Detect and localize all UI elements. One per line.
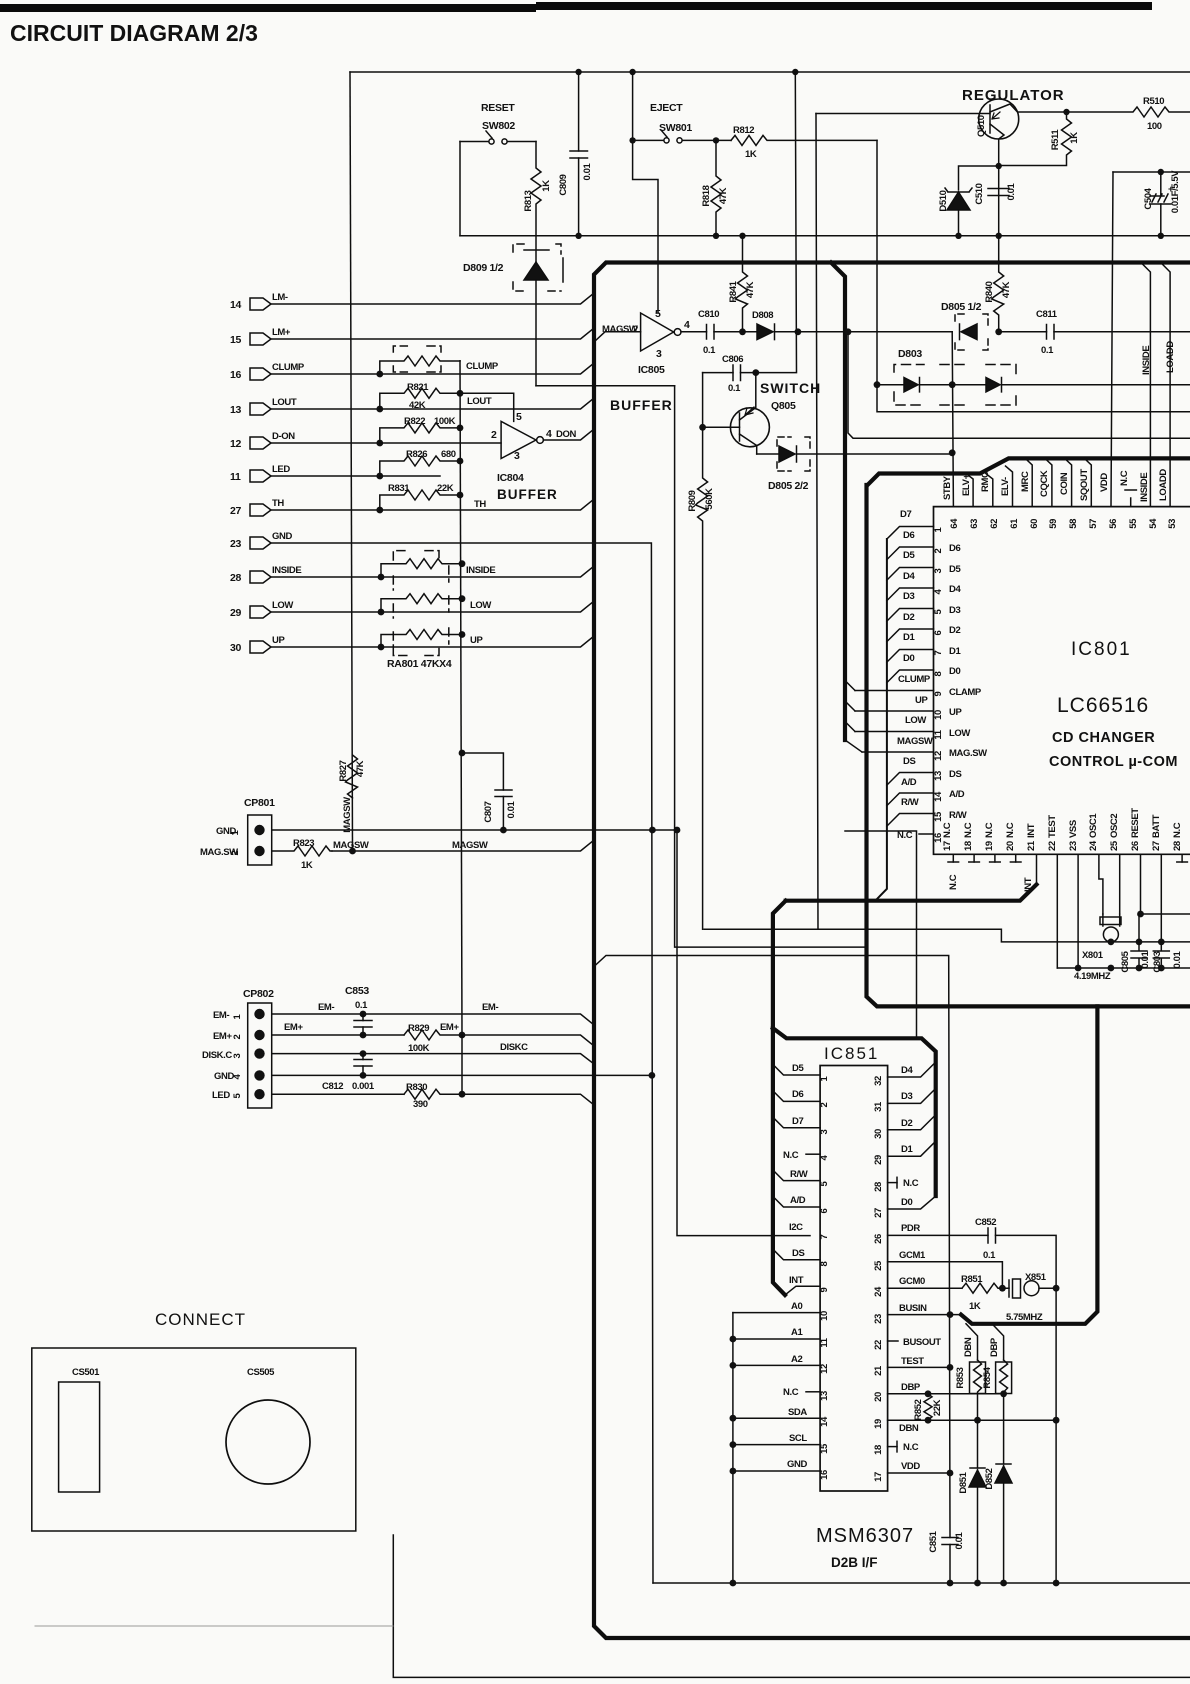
wire regulator emitter down <box>998 166 1000 236</box>
op-amp U IC801 box <box>934 507 1190 855</box>
svg-text:VDD: VDD <box>1099 473 1110 492</box>
svg-text:14: 14 <box>819 1416 830 1427</box>
node D803 left <box>874 381 881 388</box>
svg-text:47K: 47K <box>1001 281 1012 298</box>
resistor R841 47K <box>736 236 748 332</box>
bus branch to IC801 left pins thick <box>831 263 845 741</box>
svg-text:R812: R812 <box>733 125 754 136</box>
svg-text:560K: 560K <box>704 488 715 510</box>
svg-text:SWITCH: SWITCH <box>760 380 821 396</box>
svg-text:Q805: Q805 <box>771 400 796 412</box>
node BUSIN/rail950 <box>947 1311 954 1318</box>
svg-text:13: 13 <box>933 771 944 781</box>
node top rail / C809 <box>575 69 581 75</box>
pin 25 GCM1 <box>888 1262 1003 1288</box>
resistor R852 22K <box>924 1394 932 1420</box>
svg-text:N.C: N.C <box>783 1150 799 1161</box>
svg-text:LOW: LOW <box>905 715 926 726</box>
wire I2C gnd drop x=677 <box>677 830 810 1236</box>
wire vdd top right y=172 <box>1113 171 1190 173</box>
svg-text:4: 4 <box>933 588 944 594</box>
svg-text:5: 5 <box>655 308 661 320</box>
capacitor C805 0.01 <box>1131 914 1147 968</box>
svg-text:GND: GND <box>272 531 292 542</box>
svg-text:C510: C510 <box>974 183 985 204</box>
node gnd rail PDR column <box>1053 1580 1060 1587</box>
svg-text:0.1: 0.1 <box>355 1000 368 1011</box>
resistor R823 1K <box>272 846 332 856</box>
node C806/collector <box>752 369 759 376</box>
wire rail to C807 <box>462 753 503 790</box>
node CP802 GND/rail <box>649 1072 656 1079</box>
svg-text:62: 62 <box>989 519 1000 529</box>
svg-text:61: 61 <box>1009 518 1020 529</box>
svg-text:C809: C809 <box>558 174 569 195</box>
wire busA exit to x=950 rail <box>594 956 950 1584</box>
svg-text:3: 3 <box>819 1129 830 1134</box>
bus IC801 left vertical thick <box>867 485 1190 1006</box>
wire vdd column x=1112 <box>1111 172 1113 507</box>
pin 12 A2 <box>733 1364 820 1366</box>
svg-text:55: 55 <box>1128 518 1139 529</box>
svg-text:INSIDE: INSIDE <box>272 565 301 576</box>
svg-text:R/W: R/W <box>949 810 967 821</box>
node R831/rail <box>457 492 464 499</box>
node D-ON/R822 <box>376 440 383 447</box>
svg-text:DBN: DBN <box>899 1423 919 1434</box>
pin 16 GND <box>733 1470 820 1472</box>
svg-text:D2: D2 <box>949 625 960 636</box>
node GND/C807 <box>500 827 507 834</box>
node eject switch left <box>629 137 635 143</box>
node C805/968 <box>1136 965 1143 972</box>
svg-text:0.1: 0.1 <box>703 345 716 356</box>
svg-text:C811: C811 <box>1036 309 1058 320</box>
node top rail / regulator drop <box>792 69 798 75</box>
svg-text:2: 2 <box>232 1034 243 1039</box>
svg-text:24: 24 <box>873 1286 884 1297</box>
svg-text:31: 31 <box>873 1101 884 1112</box>
node C805 941 <box>1136 939 1143 946</box>
svg-text:TH: TH <box>474 499 486 510</box>
svg-text:CD CHANGER: CD CHANGER <box>1052 730 1155 746</box>
bottom pin 19 N.C <box>994 854 996 862</box>
svg-text:INT: INT <box>789 1275 804 1286</box>
svg-text:RMC: RMC <box>980 471 991 492</box>
node DBN/R852 <box>925 1417 932 1424</box>
svg-text:LOUT: LOUT <box>272 397 297 408</box>
node A1 <box>730 1336 737 1343</box>
svg-text:MAGSW: MAGSW <box>897 736 933 747</box>
svg-text:EM+: EM+ <box>213 1031 232 1042</box>
svg-text:59: 59 <box>1048 519 1059 529</box>
svg-text:17: 17 <box>942 841 953 851</box>
svg-text:8: 8 <box>819 1261 830 1266</box>
node SDA <box>730 1415 737 1422</box>
svg-text:390: 390 <box>413 1099 428 1110</box>
svg-text:C806: C806 <box>722 354 743 365</box>
node EM+/rail <box>459 1032 466 1039</box>
resistor R818 47K <box>711 140 721 235</box>
svg-text:47K: 47K <box>745 281 756 298</box>
svg-text:N.C: N.C <box>783 1387 799 1398</box>
svg-text:2: 2 <box>933 548 944 553</box>
wire eject to D803 x=877 <box>876 140 878 384</box>
svg-text:22K: 22K <box>932 1399 943 1416</box>
node X851/PDR column <box>1053 1285 1060 1292</box>
svg-text:1: 1 <box>232 1013 243 1019</box>
pin 32 D4 <box>888 1062 936 1077</box>
diode D852 <box>1003 1394 1005 1464</box>
svg-text:D7: D7 <box>900 509 911 520</box>
svg-text:D808: D808 <box>752 310 773 321</box>
diode D851 <box>977 1420 979 1468</box>
wire lower gnd rail y=1583 <box>653 1582 1190 1584</box>
svg-text:DBP: DBP <box>901 1382 921 1393</box>
wire supply rail y=235.8 <box>460 235 1190 237</box>
svg-text:47K: 47K <box>718 187 729 204</box>
resistor RA801-c <box>381 630 462 648</box>
wire test gnd rail y=968 <box>1057 967 1190 969</box>
rail A0-GND x=732.9 <box>732 1313 734 1583</box>
svg-text:6: 6 <box>819 1208 830 1213</box>
node I2C drop <box>674 827 681 834</box>
svg-text:BUFFER: BUFFER <box>610 397 673 413</box>
svg-text:D0: D0 <box>901 1197 912 1208</box>
svg-text:R818: R818 <box>701 185 712 206</box>
svg-text:0.01: 0.01 <box>506 800 517 818</box>
wire regulator base drop x=817 <box>816 114 818 930</box>
resistor R510 100 <box>1067 107 1190 117</box>
svg-text:CIRCUIT DIAGRAM 2/3: CIRCUIT DIAGRAM 2/3 <box>10 20 258 46</box>
svg-text:R853: R853 <box>955 1367 966 1388</box>
svg-text:0.01: 0.01 <box>954 1531 965 1549</box>
svg-text:VSS: VSS <box>1068 820 1079 838</box>
svg-text:UP: UP <box>272 635 285 646</box>
svg-text:C807: C807 <box>483 801 494 822</box>
svg-text:27: 27 <box>873 1208 884 1218</box>
bottom pin 26 RESET <box>1140 854 1142 914</box>
bus exit CLUMP <box>845 681 855 691</box>
svg-text:18: 18 <box>963 841 974 851</box>
node rail/R841 <box>739 233 745 239</box>
svg-text:IC805: IC805 <box>638 364 665 376</box>
node RA801b/rail <box>459 595 466 602</box>
node x801 bottom <box>1108 939 1115 946</box>
svg-text:3: 3 <box>514 450 520 462</box>
page top rule bar <box>0 4 536 12</box>
svg-text:D2: D2 <box>903 612 914 623</box>
svg-text:5: 5 <box>232 1092 243 1098</box>
svg-text:RA801 47KX4: RA801 47KX4 <box>387 658 452 670</box>
wire LED cp802 <box>272 1093 404 1095</box>
svg-text:3: 3 <box>656 348 662 360</box>
bus data D0-D7 x=886.9 <box>876 539 887 900</box>
svg-text:LED: LED <box>212 1090 230 1101</box>
capacitor C809 0.01 <box>578 72 580 151</box>
svg-text:N.C: N.C <box>903 1178 919 1189</box>
resistor R840 47K <box>992 236 1004 332</box>
svg-text:30: 30 <box>873 1129 884 1139</box>
svg-text:0.1: 0.1 <box>1041 345 1054 356</box>
label BUFFER box <box>675 386 867 947</box>
svg-text:MSM6307: MSM6307 <box>816 1525 914 1547</box>
svg-text:58: 58 <box>1068 519 1079 529</box>
node DBP/R852 <box>925 1390 932 1397</box>
pin 29 D1 <box>888 1141 936 1156</box>
svg-text:A0: A0 <box>791 1301 802 1312</box>
svg-text:LOW: LOW <box>272 600 293 611</box>
svg-text:D7: D7 <box>792 1116 803 1127</box>
bottom pin 24 OSC1 <box>1099 854 1103 914</box>
svg-text:21: 21 <box>873 1365 884 1376</box>
svg-text:23: 23 <box>1068 841 1079 851</box>
svg-text:C812: C812 <box>322 1081 343 1092</box>
svg-text:0.1: 0.1 <box>983 1250 996 1261</box>
pin 18 N.C <box>888 1446 897 1448</box>
svg-text:LOW: LOW <box>949 728 970 739</box>
svg-text:D3: D3 <box>903 591 914 602</box>
resistor R827 47K <box>346 755 358 798</box>
node C812/GND <box>360 1072 367 1079</box>
wire reset rail y=914 <box>1139 913 1190 915</box>
svg-text:EM+: EM+ <box>440 1022 459 1033</box>
wire faint page edge <box>35 1625 393 1627</box>
bus exit DBP <box>992 1324 1004 1360</box>
svg-text:N.C: N.C <box>1172 822 1183 838</box>
pin 11 A1 <box>733 1338 820 1340</box>
svg-text:13: 13 <box>819 1391 830 1401</box>
top pin 58 COIN <box>1065 458 1072 506</box>
svg-text:DBN: DBN <box>963 1337 974 1357</box>
node RA801a/rail <box>459 560 466 567</box>
node VDD/rail950 <box>947 1470 954 1477</box>
node base <box>699 424 706 431</box>
svg-text:TEST: TEST <box>901 1356 924 1367</box>
svg-text:56: 56 <box>1108 519 1119 529</box>
svg-text:GCM1: GCM1 <box>899 1250 926 1261</box>
svg-text:ELV+: ELV+ <box>961 473 972 496</box>
capacitor C504 0.01F/5.5V <box>1160 172 1162 196</box>
top pin 60 MRC <box>1025 458 1032 506</box>
svg-text:A/D: A/D <box>901 777 917 788</box>
svg-text:29: 29 <box>873 1155 884 1165</box>
svg-text:EM+: EM+ <box>284 1022 303 1033</box>
svg-text:64: 64 <box>949 518 960 529</box>
svg-text:C853: C853 <box>345 985 369 997</box>
svg-text:D1: D1 <box>949 646 961 657</box>
svg-text:CONNECT: CONNECT <box>155 1310 246 1329</box>
svg-text:28: 28 <box>230 572 242 584</box>
node emitter junction <box>996 163 1002 169</box>
svg-text:SCL: SCL <box>789 1433 807 1444</box>
svg-text:CONTROL µ-COM: CONTROL µ-COM <box>1049 754 1178 770</box>
svg-text:D803: D803 <box>898 348 922 360</box>
svg-text:9: 9 <box>819 1287 830 1292</box>
crystal X801 4.19MHZ <box>1103 914 1120 926</box>
svg-text:D805 2/2: D805 2/2 <box>768 480 809 492</box>
svg-text:680: 680 <box>441 449 456 460</box>
svg-text:1K: 1K <box>745 149 757 160</box>
svg-text:8: 8 <box>933 671 944 676</box>
svg-text:BUFFER: BUFFER <box>497 487 558 502</box>
node LED/R826 <box>376 473 383 480</box>
svg-text:D2B I/F: D2B I/F <box>831 1555 878 1570</box>
svg-text:20: 20 <box>1005 841 1016 851</box>
svg-text:27: 27 <box>230 505 242 517</box>
wire CP801 GND <box>272 829 677 831</box>
bottom pin 28 N.C <box>1181 854 1183 862</box>
bottom pin 20 N.C <box>1015 854 1017 862</box>
bus INT drop to IC851 thick <box>773 901 786 1028</box>
svg-text:D510: D510 <box>938 190 949 211</box>
node DBP/R854 <box>1000 1390 1007 1397</box>
svg-text:C851: C851 <box>928 1530 939 1552</box>
svg-text:UP: UP <box>915 695 928 706</box>
svg-text:14: 14 <box>230 299 242 311</box>
svg-text:R510: R510 <box>1143 96 1164 107</box>
node INSIDE/RA801 <box>378 574 385 581</box>
pin 9 INT <box>785 1286 820 1295</box>
svg-text:CLUMP: CLUMP <box>466 361 499 372</box>
wire osc gnd rail y=929.3 <box>704 929 1190 942</box>
top pin 57 SQOUT <box>1084 458 1091 506</box>
svg-text:7: 7 <box>933 650 944 655</box>
svg-text:R511: R511 <box>1050 129 1061 151</box>
svg-text:16: 16 <box>230 369 242 381</box>
svg-text:GND: GND <box>787 1459 807 1470</box>
svg-text:D5: D5 <box>949 564 961 575</box>
svg-text:5: 5 <box>933 608 944 614</box>
svg-text:25: 25 <box>873 1260 884 1271</box>
svg-text:22: 22 <box>1047 841 1058 851</box>
pin 21 TEST <box>888 1366 950 1368</box>
svg-text:INSIDE: INSIDE <box>466 565 495 576</box>
svg-text:11: 11 <box>933 729 944 739</box>
svg-text:R852: R852 <box>913 1399 924 1420</box>
pin 31 D3 <box>888 1088 936 1103</box>
svg-text:IC851: IC851 <box>824 1044 879 1063</box>
svg-text:LOW: LOW <box>470 600 491 611</box>
resistor R813 1K <box>531 142 541 236</box>
pin 6 A/D <box>773 1196 820 1207</box>
svg-text:LM-: LM- <box>272 292 288 303</box>
svg-text:N.C: N.C <box>1005 822 1016 838</box>
wire drop from D808 line to y438 <box>848 332 1190 438</box>
node R821/rail <box>457 390 464 397</box>
svg-text:N.C: N.C <box>903 1442 919 1453</box>
svg-text:10: 10 <box>933 710 944 720</box>
svg-text:47K: 47K <box>355 760 366 777</box>
resistor R511 1K <box>999 112 1072 166</box>
svg-text:D809 1/2: D809 1/2 <box>463 262 504 274</box>
node EM-/C853 <box>360 1011 367 1018</box>
svg-text:0.01: 0.01 <box>1172 950 1183 968</box>
svg-text:2: 2 <box>491 429 497 441</box>
node rail/C809 <box>575 233 581 239</box>
pin 2 D6 <box>773 1091 820 1102</box>
node CLUMP pullup <box>376 371 383 378</box>
svg-text:0.1: 0.1 <box>728 383 741 394</box>
svg-text:20: 20 <box>873 1392 884 1402</box>
svg-text:MRC: MRC <box>1020 471 1031 492</box>
svg-text:VDD: VDD <box>901 1461 920 1472</box>
node SCL <box>730 1441 737 1448</box>
svg-text:D852: D852 <box>984 1468 995 1489</box>
node VSS/968 <box>1075 965 1082 972</box>
svg-text:3: 3 <box>232 1053 243 1058</box>
node R822/rail <box>457 425 464 432</box>
svg-text:STBY: STBY <box>942 475 953 500</box>
bus IC801 top fan thick <box>868 458 1190 485</box>
wire reset-eject drop x=632 <box>633 72 658 313</box>
svg-text:R809: R809 <box>687 490 698 511</box>
resistor R812 1K <box>731 135 877 145</box>
svg-text:REGULATOR: REGULATOR <box>962 87 1065 104</box>
bus IC851 top fan thick <box>773 1028 936 1196</box>
svg-text:TEST: TEST <box>1047 815 1058 838</box>
pin 19 DBN <box>888 1419 1057 1421</box>
svg-text:D5: D5 <box>792 1063 804 1074</box>
wire bottom border thin <box>393 1535 1190 1677</box>
dashed box D803 <box>894 365 1016 406</box>
svg-text:C504: C504 <box>1143 187 1154 209</box>
node TH/R831 <box>376 507 383 514</box>
node A2 <box>730 1362 737 1369</box>
svg-text:23: 23 <box>873 1314 884 1324</box>
capacitor C803 <box>1153 942 1169 968</box>
resistor R853 <box>970 1362 986 1394</box>
svg-text:LM+: LM+ <box>272 327 291 338</box>
top pin 62 RMC <box>986 474 993 507</box>
svg-text:IC801: IC801 <box>1071 639 1132 660</box>
svg-text:11: 11 <box>819 1337 830 1347</box>
node eject/R818 <box>713 137 719 143</box>
bottom pin 27 BATT <box>1160 854 1162 942</box>
svg-text:D6: D6 <box>792 1089 803 1100</box>
svg-text:4: 4 <box>684 319 690 331</box>
svg-text:1K: 1K <box>301 860 313 871</box>
svg-text:3: 3 <box>933 568 944 573</box>
bottom pin 21 INT <box>1036 854 1038 884</box>
svg-text:D1: D1 <box>901 1144 913 1155</box>
svg-text:TH: TH <box>272 498 284 509</box>
svg-text:R822: R822 <box>404 416 425 427</box>
svg-text:CS505: CS505 <box>247 1367 275 1378</box>
svg-text:R841: R841 <box>728 280 739 302</box>
wire reset loop left <box>459 142 461 236</box>
svg-text:19: 19 <box>873 1419 884 1429</box>
svg-text:0.01F/5.5V: 0.01F/5.5V <box>1170 170 1181 214</box>
svg-text:IC804: IC804 <box>497 472 524 484</box>
svg-text:DISK.C: DISK.C <box>202 1050 232 1061</box>
wire segment gnd831 right <box>845 831 917 1038</box>
node LOW/RA801 <box>378 609 385 616</box>
svg-text:CLUMP: CLUMP <box>898 674 931 685</box>
capacitor C851 0.01 <box>942 1538 958 1545</box>
svg-text:5: 5 <box>516 411 522 423</box>
bus exit UP <box>845 701 855 711</box>
svg-text:SW802: SW802 <box>482 120 515 132</box>
capacitor C810 0.1 <box>681 331 743 333</box>
node D808 switch drop <box>795 328 802 335</box>
svg-text:A/D: A/D <box>949 789 965 800</box>
svg-text:CS501: CS501 <box>72 1367 100 1378</box>
resistor R809 560K <box>696 427 708 929</box>
pin 26 PDR <box>888 1235 1057 1583</box>
buffer IC804 <box>501 421 536 458</box>
svg-text:22: 22 <box>873 1340 884 1350</box>
